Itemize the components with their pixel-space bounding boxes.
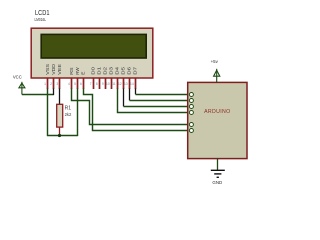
svg-text:4: 4 <box>68 82 70 86</box>
svg-text:D7: D7 <box>133 66 138 75</box>
LCD pin 5 stub <box>77 78 79 90</box>
wire D4 to arduino <box>118 89 190 113</box>
svg-text:12: 12 <box>118 82 122 86</box>
wire pin6 E to arduino <box>84 89 190 131</box>
power symbol +5v arrow <box>214 70 220 76</box>
LCD pin 1 stub <box>47 78 49 90</box>
svg-text:D2: D2 <box>103 66 108 75</box>
LCD pin 2 stub <box>53 78 55 90</box>
arduino U1 body <box>188 82 247 158</box>
wire ground rail bottom <box>47 135 78 137</box>
svg-text:11: 11 <box>112 82 116 86</box>
svg-text:VCC: VCC <box>13 74 22 79</box>
LCD pin 4 stub <box>71 78 73 90</box>
svg-text:D5: D5 <box>121 66 126 75</box>
wire pin4 RS to arduino <box>72 89 190 125</box>
resistor R1 <box>57 104 63 135</box>
LCD pin 8 stub <box>99 78 101 90</box>
svg-text:D0: D0 <box>91 66 96 75</box>
svg-text:E: E <box>81 71 86 74</box>
svg-text:8: 8 <box>96 82 98 86</box>
arduino pin connector circle 6 <box>189 129 193 133</box>
svg-text:RW: RW <box>75 66 80 74</box>
LCD pin 12 stub <box>123 78 125 90</box>
arduino pin connector circle 2 <box>189 99 193 103</box>
node junction at R1 bottom on rail <box>58 134 61 137</box>
svg-text:VDD: VDD <box>51 64 56 75</box>
svg-text:6: 6 <box>80 82 82 86</box>
LCD pin 3 stub <box>59 78 61 90</box>
svg-text:R1: R1 <box>65 106 72 112</box>
wire pin3 VEE down to R1 <box>59 89 61 105</box>
svg-text:13: 13 <box>124 82 128 86</box>
svg-text:14: 14 <box>130 82 134 86</box>
svg-text:2: 2 <box>50 82 52 86</box>
LCD LCD1 body <box>31 28 153 78</box>
wire D6 vertical (black) <box>129 89 131 101</box>
arduino pin connector circle 5 <box>189 123 193 127</box>
svg-text:+5v: +5v <box>211 59 219 64</box>
wire D6 to arduino horizontal <box>130 100 190 102</box>
power symbol VCC arrow <box>19 83 25 88</box>
arduino pin connector circle 3 <box>189 105 193 109</box>
LCD pin 13 stub <box>129 78 131 90</box>
wire pin5 RW down to ground rail <box>77 89 79 137</box>
svg-text:1: 1 <box>44 82 46 86</box>
svg-text:ARDUINO: ARDUINO <box>204 109 230 115</box>
wire D5 vertical (black) <box>123 89 125 107</box>
arduino pin connector circle 1 <box>189 93 193 97</box>
svg-text:D6: D6 <box>127 66 132 75</box>
svg-text:3: 3 <box>56 82 58 86</box>
svg-text:VEE: VEE <box>57 64 62 75</box>
svg-text:5: 5 <box>74 82 76 86</box>
svg-text:9: 9 <box>102 82 104 86</box>
wire arduino bottom to ground <box>217 159 219 170</box>
LCD pin 14 stub <box>135 78 137 90</box>
svg-text:GND: GND <box>212 180 222 185</box>
svg-text:D3: D3 <box>109 66 114 75</box>
LCD pin 11 stub <box>117 78 119 90</box>
LCD screen <box>41 34 146 58</box>
arduino pin connector circle 4 <box>189 111 193 115</box>
LCD pin 7 stub <box>93 78 95 90</box>
LCD pin 6 stub <box>83 78 85 90</box>
LCD pin 10 stub <box>111 78 113 90</box>
svg-text:10: 10 <box>106 82 110 86</box>
wire D7 vertical (black) <box>135 89 137 95</box>
svg-text:VSS: VSS <box>45 64 50 75</box>
ground symbol <box>211 170 225 177</box>
svg-text:2k2: 2k2 <box>65 112 72 117</box>
svg-text:D1: D1 <box>97 66 102 75</box>
svg-text:7: 7 <box>90 82 92 86</box>
svg-text:D4: D4 <box>115 66 120 75</box>
LCD pin 9 stub <box>105 78 107 90</box>
svg-text:RS: RS <box>69 67 74 75</box>
svg-text:LM016L: LM016L <box>35 17 47 22</box>
wire VCC to pin2 VDD <box>22 94 54 96</box>
wire pin2 VDD down to VCC wire <box>53 89 55 96</box>
wire D7 to arduino horizontal <box>136 94 190 96</box>
wire D5 to arduino horizontal <box>124 106 190 108</box>
wire pin1 VSS down to ground rail <box>47 89 49 136</box>
